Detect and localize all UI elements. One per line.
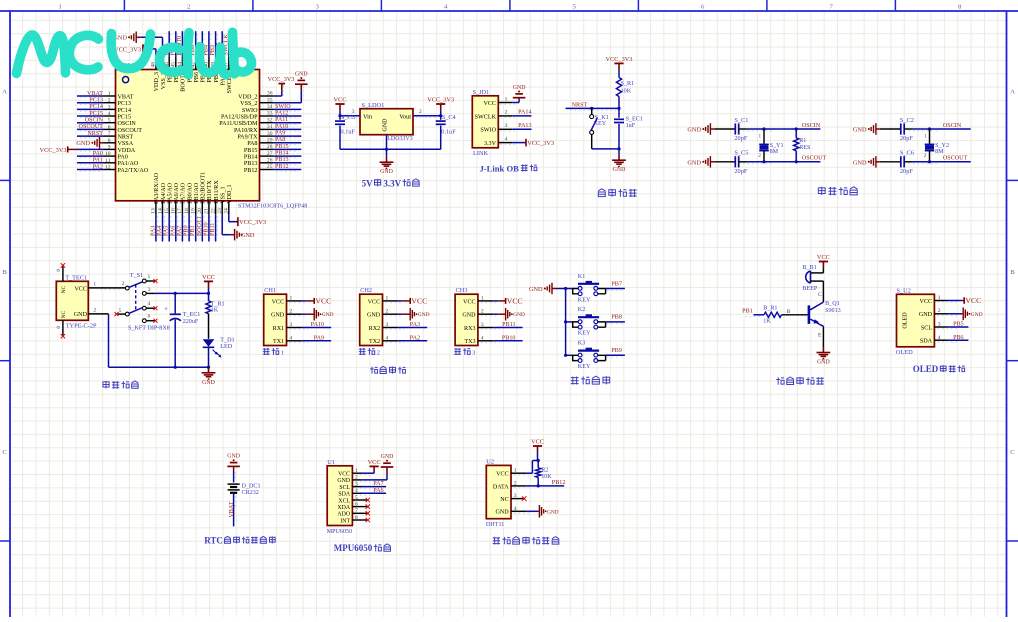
svg-text:45: 45 <box>171 62 177 68</box>
svg-text:VCC: VCC <box>920 299 933 305</box>
MCU bottom pin 21 PB10/TX <box>203 180 213 242</box>
DHT pin1 VCC wire <box>511 461 538 476</box>
svg-text:20pF: 20pF <box>900 135 913 142</box>
svg-text:SCL: SCL <box>921 325 932 331</box>
svg-text:PA6/AO: PA6/AO <box>174 182 180 203</box>
no-connect X pin1 switch <box>154 279 158 283</box>
power port VCC (OLED) <box>962 296 981 305</box>
caption reset circuit <box>598 189 636 197</box>
svg-text:VCC: VCC <box>483 101 496 107</box>
wire key bottom <box>592 148 619 150</box>
CH3 pin2 GND wire <box>478 309 498 316</box>
MCU bottom pin 24 VDD_1 <box>224 184 266 226</box>
MCU left pin 10 PA0 <box>77 151 128 161</box>
svg-text:PA3: PA3 <box>150 226 156 236</box>
svg-text:T_S1: T_S1 <box>130 273 143 279</box>
svg-text:PC14: PC14 <box>89 104 103 110</box>
svg-text:26: 26 <box>267 158 273 164</box>
svg-text:VSSA: VSSA <box>118 141 134 147</box>
svg-text:SCL: SCL <box>339 485 350 491</box>
svg-text:PA8: PA8 <box>275 137 285 143</box>
capacitor S_C2 20pF <box>900 117 914 142</box>
CH1 pin3 RX wire <box>287 322 332 329</box>
serial header CH2 body <box>360 287 383 345</box>
svg-text:TX1: TX1 <box>273 339 284 345</box>
net label PA7 <box>373 481 383 487</box>
J-Link pin1 wire VCC <box>498 96 519 104</box>
svg-text:18: 18 <box>184 208 190 214</box>
svg-text:4: 4 <box>514 506 517 512</box>
svg-text:4: 4 <box>481 335 484 341</box>
svg-text:32: 32 <box>267 117 273 123</box>
svg-text:T_R1: T_R1 <box>211 301 225 307</box>
TEC1 NC pin top stub <box>57 263 65 281</box>
wire gnd to key rail <box>556 288 566 290</box>
svg-text:LINK: LINK <box>473 150 488 157</box>
MCU right pin 33 PA12/USB/DP <box>221 110 301 120</box>
ground symbol (DHT11) <box>538 505 559 518</box>
svg-text:NRST: NRST <box>572 103 588 109</box>
caption keys circuit <box>571 376 610 384</box>
junction LDO gnd rail <box>385 148 388 151</box>
svg-text:VCC: VCC <box>965 296 981 305</box>
svg-text:S_EC1: S_EC1 <box>626 116 643 122</box>
svg-text:PC13: PC13 <box>89 98 103 104</box>
MCU left pin 9 VDDA <box>40 144 136 153</box>
svg-text:GND: GND <box>322 312 334 318</box>
svg-text:2: 2 <box>938 308 941 314</box>
svg-text:TYPE-C-2P: TYPE-C-2P <box>66 323 97 330</box>
TEC1 pin1 VCC wire <box>88 282 125 290</box>
svg-text:PB1: PB1 <box>742 309 753 315</box>
net label PA9 <box>314 335 324 341</box>
LDO ground rail wire <box>340 148 441 150</box>
svg-text:PB12: PB12 <box>552 480 566 486</box>
svg-text:PA2: PA2 <box>93 164 103 170</box>
svg-text:S_LDO1: S_LDO1 <box>362 102 385 109</box>
svg-text:VCC: VCC <box>368 459 381 466</box>
svg-text:C: C <box>818 292 822 298</box>
svg-text:PA0: PA0 <box>118 155 128 161</box>
svg-text:OSCIN: OSCIN <box>943 123 962 129</box>
svg-text:20pF: 20pF <box>734 135 747 142</box>
LDO regulator S_LDO1 body <box>360 102 413 142</box>
LED T_D1 <box>203 338 235 368</box>
svg-text:LDO33V3: LDO33V3 <box>387 136 412 142</box>
DHT11 U2 body <box>486 459 511 528</box>
svg-text:A: A <box>1010 89 1015 96</box>
capacitor T_EC1 220uF <box>164 293 200 367</box>
svg-text:8: 8 <box>108 138 111 144</box>
svg-text:2: 2 <box>290 309 293 315</box>
svg-text:PA6: PA6 <box>373 488 383 494</box>
resistor S_R1 10K <box>616 78 634 97</box>
svg-text:GND: GND <box>462 313 476 319</box>
caption J-Link OB interface <box>480 164 537 174</box>
svg-text:PA9/TX: PA9/TX <box>237 135 258 141</box>
MCU left pin 3 PC14 <box>77 104 131 114</box>
svg-text:INT: INT <box>340 518 350 524</box>
svg-text:7: 7 <box>355 508 358 514</box>
svg-text:PA14: PA14 <box>518 110 531 116</box>
svg-text:1: 1 <box>386 295 389 301</box>
caption 5V to 3.3V circuit <box>362 178 420 188</box>
junction NRST/key <box>590 107 593 110</box>
svg-text:NRST: NRST <box>87 131 103 137</box>
svg-text:K2: K2 <box>578 307 585 313</box>
svg-text:GND: GND <box>367 313 381 319</box>
ground symbol (keys) <box>529 283 556 294</box>
MPU pin3 SCL wire <box>352 481 386 488</box>
wire S_C6 to OSCOUT <box>904 162 971 164</box>
svg-text:MPU6050: MPU6050 <box>327 529 352 535</box>
svg-text:4: 4 <box>147 301 150 307</box>
buzzer B_B1 BEEP <box>802 265 823 292</box>
svg-text:36: 36 <box>267 91 273 97</box>
svg-text:PA11: PA11 <box>275 117 288 123</box>
svg-text:VCC: VCC <box>272 299 285 305</box>
LDO pin2 wire Vout <box>413 109 441 117</box>
caption temperature humidity module <box>493 537 559 545</box>
crystal S_Y2 8M <box>924 129 949 162</box>
svg-text:GND: GND <box>383 118 389 132</box>
svg-text:3: 3 <box>290 322 293 328</box>
label serial port 2 <box>359 348 380 356</box>
svg-text:VCC: VCC <box>507 296 523 305</box>
MCU right pin 31 PA10/RX <box>234 124 301 134</box>
svg-text:VCC: VCC <box>202 274 215 281</box>
svg-text:VSS_2: VSS_2 <box>240 101 257 107</box>
svg-text:VBAT: VBAT <box>229 501 235 517</box>
svg-text:PB10: PB10 <box>203 222 209 236</box>
svg-text:8M: 8M <box>770 149 779 155</box>
svg-text:VCC: VCC <box>496 472 509 478</box>
svg-text:OLED: OLED <box>903 312 909 329</box>
svg-text:VCC_3V3: VCC_3V3 <box>268 76 295 83</box>
svg-text:PA7: PA7 <box>177 226 183 236</box>
svg-text:DHT11: DHT11 <box>486 522 504 528</box>
svg-text:2: 2 <box>386 309 389 315</box>
net label PB12 <box>552 480 566 486</box>
capacitor S_C4 0.1uF <box>436 114 457 149</box>
svg-text:PB15: PB15 <box>244 148 258 154</box>
wire rail to K2 <box>566 321 573 323</box>
svg-text:TX3: TX3 <box>464 339 475 345</box>
MCU top pin 40 PB4 <box>203 31 213 82</box>
CH3 pin4 TX wire <box>478 335 523 342</box>
svg-text:25: 25 <box>267 164 273 170</box>
power port VCC (LDO input) <box>334 96 347 115</box>
MCU right pin 27 PB14 <box>244 151 301 161</box>
MPU pin6 XDA no-connect <box>352 501 370 508</box>
svg-text:PC13: PC13 <box>118 101 132 107</box>
svg-text:1K: 1K <box>763 319 771 325</box>
svg-text:S_Y1: S_Y1 <box>770 143 784 149</box>
net label PA3 <box>410 322 420 328</box>
caption buzzer circuit <box>776 377 824 385</box>
svg-text:SWIO: SWIO <box>275 104 291 110</box>
svg-text:GND: GND <box>853 127 867 134</box>
net label PB10 <box>502 335 516 341</box>
svg-text:1: 1 <box>93 282 96 288</box>
svg-text:19: 19 <box>191 208 197 214</box>
svg-text:PB9: PB9 <box>611 348 622 354</box>
power port VCC_3V3 (reset) <box>606 56 633 78</box>
svg-text:24: 24 <box>224 208 230 214</box>
junction LED/gnd <box>207 366 210 369</box>
OLED pin4 SDA wire <box>934 335 968 342</box>
svg-text:2: 2 <box>93 308 96 314</box>
ground symbol (buzzer) <box>817 347 831 366</box>
svg-text:4: 4 <box>108 111 111 117</box>
MCU bottom pin 16 PA6/AO <box>170 182 180 241</box>
svg-text:0.1uF: 0.1uF <box>341 129 356 136</box>
svg-text:3: 3 <box>472 350 475 357</box>
svg-text:S_R1: S_R1 <box>621 81 635 87</box>
MCU top pin 38 PA15 <box>217 31 227 85</box>
svg-text:S_K1: S_K1 <box>595 115 609 121</box>
power port VCC (CH2) <box>403 296 427 305</box>
net label OSCOUT 1 <box>802 156 827 162</box>
power port VCC (DHT11) <box>531 438 544 460</box>
svg-text:3: 3 <box>505 123 508 129</box>
svg-text:RTC: RTC <box>204 535 223 545</box>
svg-text:4: 4 <box>938 335 941 341</box>
net label PA14 <box>518 110 531 116</box>
svg-text:4: 4 <box>290 335 293 341</box>
svg-text:C: C <box>2 449 7 456</box>
wire gnd to S_C5 <box>714 161 735 163</box>
svg-text:VCC: VCC <box>817 254 830 261</box>
svg-text:GND: GND <box>853 159 867 166</box>
svg-text:220uF: 220uF <box>183 319 199 325</box>
caption MPU6050 module <box>334 543 391 553</box>
svg-text:U1: U1 <box>327 459 335 466</box>
svg-text:VCC: VCC <box>411 296 427 305</box>
svg-text:GND: GND <box>271 313 285 319</box>
svg-text:CH3: CH3 <box>456 287 468 294</box>
svg-text:PA8: PA8 <box>247 141 257 147</box>
svg-text:C: C <box>1010 449 1015 456</box>
net label PB5 <box>953 322 964 328</box>
resistor T_R1 1K <box>206 293 225 338</box>
svg-text:1: 1 <box>514 468 517 474</box>
caption crystal circuit <box>818 187 857 196</box>
svg-text:PB10: PB10 <box>502 335 516 341</box>
svg-text:VBAT: VBAT <box>87 91 103 97</box>
svg-text:PB12: PB12 <box>275 164 289 170</box>
power port VCC (CH1) <box>307 296 331 305</box>
capacitor S_C3 0.1uF <box>335 114 356 149</box>
svg-text:4: 4 <box>386 335 389 341</box>
power port VCC_3V3 (J-Link) <box>526 139 555 147</box>
wire battery VBAT <box>234 493 236 527</box>
svg-text:VCC_3V3: VCC_3V3 <box>527 140 554 147</box>
CH1 pin1 VCC wire <box>287 295 307 302</box>
svg-text:S_U2: S_U2 <box>897 287 911 294</box>
svg-text:8: 8 <box>355 515 358 521</box>
MCU top pin 45 PB8 <box>170 31 180 82</box>
MCU top pin 42 PB6 <box>190 31 200 82</box>
CH3 pin3 RX wire <box>478 322 523 329</box>
svg-text:GND: GND <box>227 454 240 460</box>
svg-text:SWIO: SWIO <box>480 128 496 134</box>
MCU right pin 34 SWIO <box>242 104 301 114</box>
svg-text:PA1/AO: PA1/AO <box>118 161 139 167</box>
MCU right pin 25 PB12 <box>244 164 301 174</box>
MCU right pin 29 PA8 <box>247 137 301 147</box>
svg-text:GND: GND <box>529 286 543 293</box>
svg-text:6: 6 <box>108 124 111 130</box>
svg-text:2: 2 <box>514 480 517 486</box>
svg-text:PB10/TX: PB10/TX <box>207 180 213 204</box>
svg-text:2: 2 <box>122 281 125 287</box>
wire switch pin3 to VCC node <box>155 292 208 294</box>
TEC1 pin2 GND wire <box>88 308 108 314</box>
junction rail bottom EC1 <box>174 366 177 369</box>
capacitor S_C6 20pF <box>900 150 914 175</box>
no-connect X pin5 switch <box>115 312 119 316</box>
svg-text:2: 2 <box>108 98 111 104</box>
resistor B_R1 1K <box>763 306 781 325</box>
svg-text:1: 1 <box>58 3 61 10</box>
junction NRST/cap <box>617 107 620 110</box>
svg-text:OSCOUT: OSCOUT <box>943 156 968 162</box>
svg-text:E: E <box>818 332 822 338</box>
svg-text:PB3: PB3 <box>210 45 216 56</box>
svg-text:28: 28 <box>267 144 273 150</box>
CH2 pin3 RX wire <box>383 322 428 329</box>
OLED pin3 SCL wire <box>934 322 968 329</box>
svg-text:PA9: PA9 <box>314 335 324 341</box>
svg-text:3: 3 <box>481 322 484 328</box>
svg-text:K3: K3 <box>578 341 585 347</box>
svg-text:3: 3 <box>108 104 111 110</box>
wire rail to K1 <box>566 288 573 290</box>
CH3 pin1 VCC wire <box>478 295 498 302</box>
svg-text:1: 1 <box>938 295 941 301</box>
wire K1 to PB7 <box>606 289 625 291</box>
ground symbol (OLED) <box>962 307 982 320</box>
wire gnd to battery <box>234 472 236 483</box>
CH1 pin2 GND wire <box>287 309 307 316</box>
wire S_C1 to OSCIN <box>739 129 821 131</box>
svg-text:GND: GND <box>241 232 255 239</box>
ground symbol (CH3) <box>498 308 525 321</box>
svg-text:29: 29 <box>267 138 273 144</box>
svg-text:PA10: PA10 <box>275 124 288 130</box>
MCU right pin 28 PB15 <box>244 144 301 154</box>
junction rail K2 <box>564 320 567 323</box>
svg-text:S_C2: S_C2 <box>900 117 914 124</box>
svg-text:PB0/AO: PB0/AO <box>187 182 193 204</box>
wire NRST <box>566 108 620 110</box>
svg-text:S_C1: S_C1 <box>734 117 748 124</box>
svg-text:14: 14 <box>157 208 163 214</box>
net label OSCOUT 2 <box>943 156 968 162</box>
svg-text:PA0: PA0 <box>93 151 103 157</box>
key K1 KEY <box>573 274 606 304</box>
svg-text:GND: GND <box>971 312 983 318</box>
svg-text:BOOT1: BOOT1 <box>197 216 203 236</box>
MCU bottom pin 15 PA5/AO <box>164 182 174 241</box>
svg-text:PB0: PB0 <box>184 225 190 236</box>
capacitor S_C5 20pF <box>734 150 748 175</box>
svg-text:KEY: KEY <box>578 364 591 370</box>
svg-text:VCC: VCC <box>531 438 544 445</box>
svg-text:TX2: TX2 <box>369 339 380 345</box>
svg-text:PA11/USB/DM: PA11/USB/DM <box>219 121 258 127</box>
svg-text:PC14: PC14 <box>118 108 132 114</box>
svg-text:1: 1 <box>505 96 508 102</box>
svg-text:VDD_3: VDD_3 <box>154 72 160 91</box>
svg-text:RES: RES <box>799 145 811 151</box>
ground symbol (S_Y2 bottom) <box>853 156 880 168</box>
svg-text:2: 2 <box>187 3 190 10</box>
key K2 KEY <box>573 307 606 337</box>
LDO pin3 wire Vin <box>340 109 360 117</box>
svg-text:SDA: SDA <box>920 339 933 345</box>
svg-text:33: 33 <box>267 111 273 117</box>
MPU pin1 VCC wire <box>352 467 374 475</box>
svg-text:3: 3 <box>386 322 389 328</box>
svg-text:PA5: PA5 <box>164 226 170 236</box>
svg-text:5: 5 <box>355 495 358 501</box>
wire rail to K3 <box>566 354 573 356</box>
svg-text:PB1: PB1 <box>190 225 196 236</box>
svg-text:GND: GND <box>202 380 215 386</box>
OLED header S_U2 body <box>896 287 935 356</box>
svg-text:PA2: PA2 <box>410 335 420 341</box>
svg-text:U2: U2 <box>486 459 494 466</box>
svg-text:RX2: RX2 <box>369 326 381 332</box>
junction rail K1 <box>564 287 567 290</box>
junction crystal bottom 1 <box>762 160 765 163</box>
svg-text:GND: GND <box>919 312 933 318</box>
svg-text:5: 5 <box>119 308 122 314</box>
svg-text:RX3: RX3 <box>464 326 476 332</box>
svg-text:17: 17 <box>177 208 183 214</box>
svg-text:VCC_3V3: VCC_3V3 <box>40 147 67 154</box>
serial header CH3 body <box>455 287 478 345</box>
svg-text:13: 13 <box>151 208 157 214</box>
svg-text:VSS_1: VSS_1 <box>221 186 227 203</box>
svg-text:GND: GND <box>513 85 526 91</box>
power port VCC (power block) <box>202 274 215 294</box>
svg-text:T_D1: T_D1 <box>220 338 234 344</box>
svg-text:GND: GND <box>295 71 308 77</box>
ground symbol (power) <box>202 367 216 386</box>
net label PB6 <box>953 335 964 341</box>
svg-text:1: 1 <box>290 295 293 301</box>
ground symbol (MPU) <box>381 454 394 467</box>
svg-text:K1: K1 <box>578 274 585 280</box>
svg-text:GND: GND <box>76 140 90 147</box>
svg-text:27: 27 <box>267 151 273 157</box>
MCU right pin 30 PA9/TX <box>237 131 301 141</box>
power port VCC (MPU) <box>368 459 381 467</box>
ground symbol (RTC) <box>227 454 240 472</box>
svg-text:NRST: NRST <box>118 135 134 141</box>
MCU U1 chip body STM32F103C8T6 <box>116 62 308 210</box>
MCU bottom pin 13 PA3/RX/AO <box>150 172 160 241</box>
svg-text:S_C6: S_C6 <box>900 150 914 157</box>
svg-text:16: 16 <box>171 208 177 214</box>
svg-text:3: 3 <box>938 322 941 328</box>
svg-text:PA4: PA4 <box>157 226 163 236</box>
svg-text:PB1/AO: PB1/AO <box>194 182 200 204</box>
junction crystal top 2 <box>928 127 931 130</box>
